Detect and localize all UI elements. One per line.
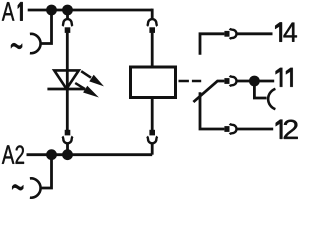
wire A2 to clamp [41, 155, 52, 188]
wire LED branch lower [66, 89, 69, 130]
plug-in contact at top of LED branch (socket + pin) [62, 14, 72, 33]
label A1 [2, 2, 23, 21]
fixed contact 12 (NC) wire and stem [200, 92, 224, 129]
plug-in contact at bottom of coil branch (pin + socket) [147, 130, 157, 155]
junction node on A1 (to LED branch) [62, 5, 73, 16]
wire row 12 [237, 128, 274, 131]
plug-in contact at bottom of LED branch (pin + socket) [62, 130, 72, 150]
wire coil branch from A1 corner [151, 9, 154, 20]
label tilde A2 [12, 184, 23, 190]
wire A2 horizontal [27, 153, 153, 156]
LED indicator (diode + arrows) [47, 70, 104, 97]
cage clamp terminal A2 [30, 178, 41, 197]
cage clamp terminal A1 [30, 34, 41, 53]
plug-in contact row 12 (pin + socket) [224, 124, 236, 134]
wire A1 to clamp [41, 10, 52, 44]
junction node on A1 (to clamp) [46, 5, 57, 16]
label 11 [276, 68, 293, 87]
wire row 14 [237, 32, 273, 35]
label 12 [276, 120, 298, 139]
wire to coil top [151, 33, 154, 66]
wire coil bottom [151, 99, 154, 131]
wire A1 horizontal [28, 9, 153, 12]
junction node on A2 (to clamp) [46, 149, 57, 160]
junction node on A2 (LED branch) [62, 149, 73, 160]
wire LED branch upper [66, 33, 69, 89]
wire row 11 [237, 80, 275, 83]
plug-in contact at top of coil branch (socket + pin) [147, 19, 157, 33]
label 14 [275, 22, 297, 41]
label A2 [2, 145, 24, 163]
label tilde A1 [11, 43, 22, 49]
junction node row 11 [249, 76, 260, 87]
relay coil [131, 67, 176, 98]
cage clamp terminal 11 [268, 89, 275, 109]
plug-in contact row 14 (pin + socket) [224, 29, 236, 39]
fixed contact 14 (NO) wire and stem [200, 34, 224, 55]
mechanical link (dashed) coil to contact [179, 80, 202, 83]
wire 11 to clamp [254, 81, 266, 98]
plug-in contact row 11 (pin + socket) [224, 76, 236, 86]
movable contact arm (common 11) [193, 81, 224, 102]
